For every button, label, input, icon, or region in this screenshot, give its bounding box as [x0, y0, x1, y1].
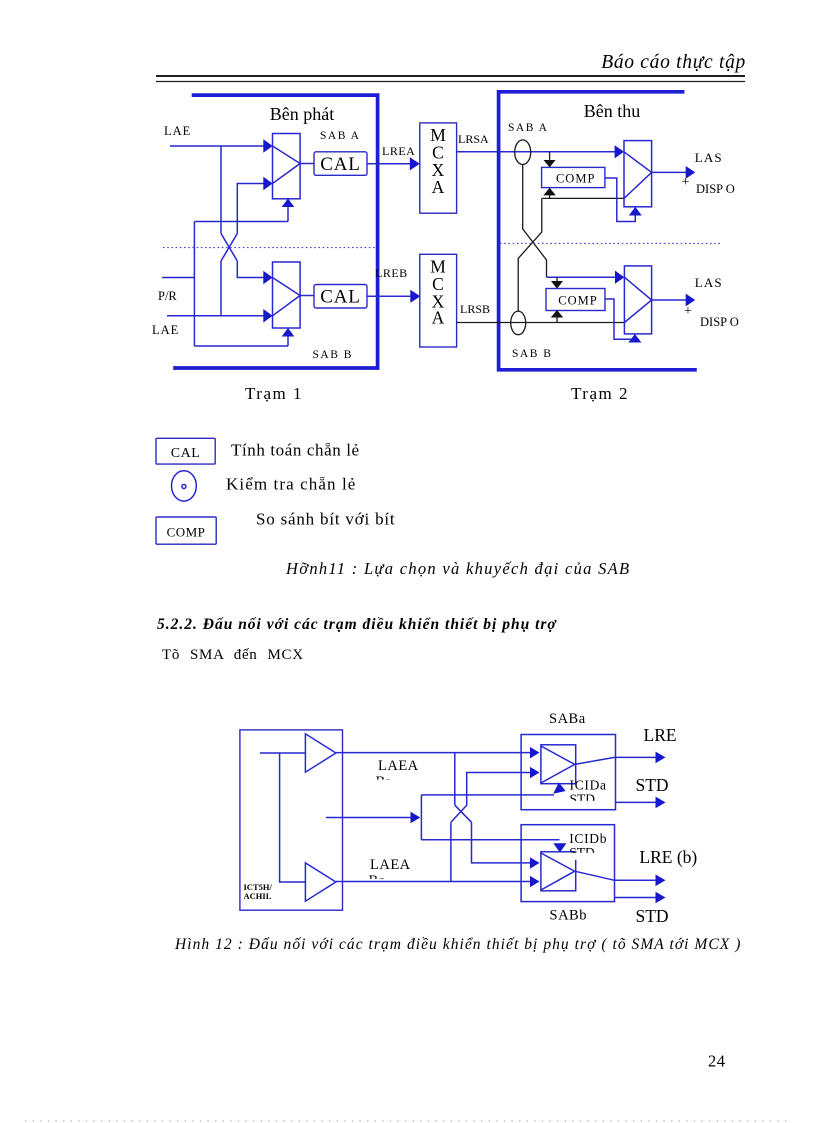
station box Tram 1: [173, 95, 377, 368]
svg-text:LRSA: LRSA: [458, 132, 489, 146]
crossover leg to bottom wire: [450, 822, 452, 881]
svg-text:+: +: [684, 304, 692, 319]
black down arrow into COMP B: [556, 277, 558, 281]
select arrow amp A1: [287, 207, 289, 222]
wire LAE top with arrow: [170, 145, 264, 147]
feedback wire lower y346: [194, 345, 288, 347]
LRE output with arrow and label: [575, 757, 656, 764]
black wire lower input amp A2: [542, 197, 624, 199]
black crossover path to ellipse B: [518, 198, 542, 311]
svg-text:LAS: LAS: [695, 275, 723, 290]
STD output with arrow and label: [616, 801, 657, 803]
bottom dotted rule: [25, 1120, 790, 1122]
select wire b to ICIDb with arrow: [421, 839, 559, 841]
svg-text:COMP: COMP: [556, 172, 595, 186]
svg-text:SAB B: SAB B: [313, 349, 353, 361]
output wire LAS B with arrow: [652, 299, 686, 301]
svg-text:So sánh bít với bít: So sánh bít với bít: [256, 510, 395, 529]
MCXA box: [420, 123, 457, 213]
svg-text:+: +: [682, 175, 690, 190]
svg-text:24: 24: [708, 1052, 726, 1071]
svg-text:Tính toán chẵn lẻ: Tính toán chẵn lẻ: [231, 441, 360, 460]
wire vertical bus x194: [193, 222, 195, 347]
svg-text:STD: STD: [636, 906, 669, 926]
svg-text:ICIDb: ICIDb: [569, 831, 607, 846]
COMP box B: [546, 289, 605, 311]
svg-text:A: A: [432, 177, 445, 197]
crossover X2: [451, 805, 472, 822]
selector amp A2: [624, 141, 652, 207]
svg-text:CAL: CAL: [320, 154, 360, 175]
dotted line left: [163, 247, 376, 249]
svg-text:SAB B: SAB B: [512, 348, 552, 360]
svg-text:5.2.2. Đấu nối với các trạm đi: 5.2.2. Đấu nối với các trạm điều khiển t…: [157, 616, 557, 633]
COMP box A: [542, 167, 605, 187]
black down arrow into COMP A: [549, 152, 551, 160]
select loop amp A2: [605, 178, 635, 222]
LRE (b) output with arrow and label: [575, 871, 656, 880]
legend COMP box: [156, 517, 216, 544]
svg-text:ACHIL: ACHIL: [244, 891, 272, 901]
MCXB box: [420, 254, 457, 347]
select loop amp B2: [605, 299, 635, 339]
output wire LAS A with arrow: [652, 171, 686, 173]
parity ellipse A: [515, 140, 531, 165]
svg-text:SABb: SABb: [550, 908, 587, 924]
SABb box: [521, 825, 614, 902]
wire LRSA with arrow, label LRSA: [457, 151, 615, 153]
select wire a to ICIDa with arrow: [421, 794, 554, 796]
wire LAEA Bo to SABb input2 with arrow: [336, 881, 531, 883]
black up arrow into COMP A: [549, 195, 551, 198]
svg-text:Báo cáo thực tập: Báo cáo thực tập: [601, 52, 746, 73]
legend parity circle: [172, 471, 197, 501]
svg-text:P/R: P/R: [158, 289, 177, 303]
feedback wire upper y221: [194, 221, 288, 223]
svg-text:LAE: LAE: [164, 124, 191, 138]
wire CAL B to MCXB with arrow, label LREB: [367, 295, 411, 297]
svg-text:LREA: LREA: [382, 144, 415, 158]
svg-text:A: A: [432, 307, 445, 327]
wire vertical x221 lower: [220, 261, 222, 316]
svg-text:LREB: LREB: [375, 266, 408, 280]
wire CAL A to MCXA with arrow, label LREA: [367, 163, 411, 165]
internal vertical bus: [280, 753, 306, 882]
svg-text:CAL: CAL: [320, 286, 360, 307]
middle select wire with arrow: [326, 817, 411, 819]
wire crossover to SABb input1 with arrow: [472, 822, 531, 863]
svg-text:LAE: LAE: [152, 323, 179, 337]
wire vertical bus x221 upper: [220, 146, 222, 234]
svg-text:DISP O: DISP O: [700, 315, 739, 329]
CAL box A: [314, 152, 367, 176]
svg-text:Hỡnh11 : Lựa chọn và khuyếch đ: Hỡnh11 : Lựa chọn và khuyếch đại của SAB: [285, 559, 630, 578]
svg-text:Trạm 1: Trạm 1: [245, 384, 303, 403]
ICIDa amp: [541, 745, 576, 784]
svg-text:LAS: LAS: [695, 150, 723, 165]
dotted line right: [500, 242, 721, 244]
svg-text:COMP: COMP: [167, 525, 206, 540]
block ICT5H/ACHIL: [240, 730, 343, 910]
legend CAL box: [156, 438, 215, 464]
svg-text:LAEA: LAEA: [378, 758, 419, 774]
svg-text:LRE (b): LRE (b): [639, 847, 697, 867]
svg-text:Bên thu: Bên thu: [584, 101, 641, 121]
selector amp B2: [624, 266, 651, 334]
svg-text:DISP O: DISP O: [696, 182, 735, 196]
crossover X1: [221, 234, 237, 262]
SABa box: [521, 735, 615, 810]
wire apex to CAL B: [300, 295, 314, 297]
wire input2 of amp A1 with arrow: [237, 184, 264, 234]
wire SABa input2 from crossover: [467, 773, 531, 806]
svg-text:ICIDa: ICIDa: [570, 778, 607, 793]
svg-text:LRSB: LRSB: [460, 302, 490, 316]
parity ellipse B: [511, 311, 526, 335]
svg-text:Trạm 2: Trạm 2: [571, 384, 629, 403]
select split vertical: [420, 795, 422, 840]
buffer T2: [305, 863, 336, 901]
ICIDb amp: [541, 852, 576, 891]
black crossover path from ellipse A: [523, 165, 547, 278]
wire LAE bottom with arrow: [167, 315, 264, 317]
svg-text:Tõ SMA đến MCX: Tõ SMA đến MCX: [162, 647, 304, 663]
station box Tram 2: [499, 92, 697, 370]
svg-text:LRE: LRE: [644, 725, 677, 745]
junction vertical A: [454, 753, 456, 806]
svg-text:Bên phát: Bên phát: [270, 104, 335, 124]
selector amp A1: [273, 134, 301, 199]
wire LAEA Ba to SABa input1 with arrow: [336, 752, 531, 754]
svg-text:SABa: SABa: [549, 711, 586, 727]
wire apex to CAL A: [300, 163, 314, 165]
svg-text:Hình 12 : Đấu nối với các trạm: Hình 12 : Đấu nối với các trạm điều khiể…: [174, 936, 741, 953]
selector amp B1: [273, 262, 301, 328]
svg-text:STD: STD: [636, 775, 669, 795]
svg-text:CAL: CAL: [171, 446, 201, 461]
wire P/R: [162, 277, 194, 279]
buffer T1: [305, 734, 336, 772]
STD output 2 with arrow and label: [615, 897, 657, 899]
CAL box B: [314, 285, 367, 309]
svg-text:COMP: COMP: [558, 294, 597, 308]
svg-text:SAB A: SAB A: [508, 122, 548, 134]
svg-text:LAEA: LAEA: [370, 857, 411, 873]
blue wire upper input amp B2 with arrow: [547, 276, 616, 278]
select arrow amp B1: [287, 337, 289, 347]
svg-text:SAB A: SAB A: [320, 130, 360, 142]
wire to amp B1 input1 with arrow: [237, 261, 264, 278]
header double rule: [156, 76, 745, 82]
black up arrow into COMP B: [556, 317, 558, 323]
svg-text:Kiểm tra chẵn lẻ: Kiểm tra chẵn lẻ: [226, 475, 356, 494]
wire LRSB black, label LRSB: [457, 322, 625, 324]
